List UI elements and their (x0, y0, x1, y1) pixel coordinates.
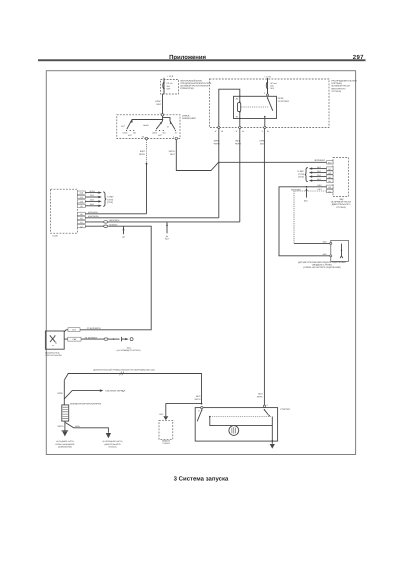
svg-text:БЕЛ: БЕЛ (157, 103, 162, 106)
svg-text:А11: А11 (80, 196, 83, 199)
fuse F2 40A (266, 79, 276, 94)
splice stub node A (122, 226, 124, 238)
wire relay pin КРАС/ЧЕРН down to C220 row (214, 129, 220, 218)
svg-text:(В ЛЕВОЙ ЧАСТИ: (В ЛЕВОЙ ЧАСТИ (332, 85, 351, 88)
svg-text:БЕЛ: БЕЛ (196, 395, 201, 398)
svg-text:ВЫКЛ: ВЫКЛ (143, 124, 149, 127)
ignition switch internals (121, 116, 178, 137)
svg-text:ЖЕЛ: ЖЕЛ (140, 150, 145, 153)
wire battery to engine ground (65, 422, 109, 433)
svg-text:СУПЗ: СУПЗ (298, 173, 304, 176)
svg-text:БЕЛ: БЕЛ (160, 413, 165, 416)
stop switch pin id box on top wire (68, 327, 101, 332)
ground G2 label (103, 440, 123, 448)
svg-text:С: С (267, 404, 269, 407)
svg-text:(СЛЕВА НА КАРТЕРЕ СЦЕПЛЕНИЯ): (СЛЕВА НА КАРТЕРЕ СЦЕПЛЕНИЯ) (303, 266, 340, 269)
svg-text:(ЗАЗЕМЛЕНИЕ): (ЗАЗЕМЛЕНИЕ) (58, 445, 72, 448)
svg-text:ЧЕРН: ЧЕРН (169, 150, 175, 153)
svg-text:В10: В10 (328, 162, 331, 165)
svg-text:ЖЕЛ/ЧЕРН: ЖЕЛ/ЧЕРН (88, 211, 99, 214)
svg-text:БЕЛ: БЕЛ (170, 153, 175, 156)
svg-text:В6: В6 (329, 172, 331, 175)
svg-text:ЗЕЛ: ЗЕЛ (270, 87, 274, 90)
ground G1 label (56, 440, 76, 448)
svg-text:ПРЕДОХРАНИТЕЛЕЙ И РЕЛЕ: ПРЕДОХРАНИТЕЛЕЙ И РЕЛЕ (181, 82, 212, 85)
svg-text:(В ПРАВОЙ ЧАСТИ: (В ПРАВОЙ ЧАСТИ (331, 201, 351, 204)
svg-text:А12: А12 (80, 192, 83, 195)
svg-text:ДАТЧИК ПОЛОЖЕНИЯ ПЕДАЛИ СЦЕПЛЕ: ДАТЧИК ПОЛОЖЕНИЯ ПЕДАЛИ СЦЕПЛЕНИЯ (298, 261, 346, 264)
svg-text:ОТСЕКА): ОТСЕКА) (332, 90, 342, 93)
svg-text:ЗАЖИГАНИЯ: ЗАЖИГАНИЯ (182, 117, 196, 120)
connector C220 pin boxes (77, 191, 85, 228)
header rule (38, 59, 366, 61)
MT models dashed box (159, 420, 173, 439)
ECU arrow wires to SUPZ unit (309, 166, 327, 182)
svg-text:(В ПЕРЕДНЕЙ ЧАСТИ: (В ПЕРЕДНЕЙ ЧАСТИ (103, 440, 123, 443)
svg-text:ЭБУ: ЭБУ (339, 198, 344, 201)
svg-text:2Б ЗЕЛ/БЕЛ: 2Б ЗЕЛ/БЕЛ (85, 337, 98, 340)
svg-text:(В ЛЕВОЙ ЧАСТИ ПАНЕЛИ: (В ЛЕВОЙ ЧАСТИ ПАНЕЛИ (181, 85, 209, 88)
relay K1 body (234, 96, 277, 118)
svg-text:К ЭБУ: К ЭБУ (298, 170, 305, 173)
charging system branch arrow (64, 389, 125, 398)
svg-text:АСС: АСС (128, 134, 133, 137)
svg-text:КРАС: КРАС (260, 140, 266, 143)
svg-text:(МОДЕЛИ С РКПП): (МОДЕЛИ С РКПП) (312, 264, 332, 267)
svg-text:КРАС: КРАС (214, 140, 220, 143)
svg-text:В: В (198, 409, 200, 412)
svg-text:3: 3 (264, 92, 265, 95)
svg-text:СТ: СТ (167, 125, 170, 128)
svg-text:КРАС: КРАС (155, 100, 161, 103)
starter ground node (271, 440, 273, 442)
svg-text:1Г: 1Г (236, 130, 238, 133)
svg-text:ON: ON (163, 132, 166, 135)
svg-text:2Г БЕЛ/ЧЕРН: 2Г БЕЛ/ЧЕРН (87, 327, 101, 330)
svg-text:МОТОРНОГО: МОТОРНОГО (332, 87, 346, 90)
starter plunger link (dashed) (210, 416, 271, 418)
stop switch label (45, 351, 62, 357)
svg-text:МОНТАЖНЫЙ БЛОК: МОНТАЖНЫЙ БЛОК (181, 79, 203, 82)
fuse F1 30A (163, 80, 173, 95)
svg-text:БЕЛ: БЕЛ (258, 393, 263, 396)
wire C220 A4 to relay coil ЖЕЛ/ЧЕРН (85, 219, 240, 223)
svg-text:ЖЕЛ: ЖЕЛ (235, 140, 240, 143)
MT models box label (162, 440, 171, 446)
relay box dashed enclosure (распределительная коробка) (210, 79, 330, 128)
battery feed wire to starter (57, 372, 201, 405)
svg-text:С220: С220 (53, 235, 59, 238)
diagram frame (46, 71, 355, 455)
svg-text:19: 19 (221, 130, 223, 133)
battery G1 (62, 402, 102, 421)
clutch sensor internal switch (340, 244, 343, 259)
svg-text:ДОПОЛНИТЕЛЬНЫЙ ПРОВОД (ТОЛЬКО: ДОПОЛНИТЕЛЬНЫЙ ПРОВОД (ТОЛЬКО ПРИ ОБОРУД… (93, 368, 155, 371)
relay enclosure bottom pins (215, 126, 270, 133)
svg-text:СИСТЕМА ЗАРЯДА: СИСТЕМА ЗАРЯДА (105, 390, 126, 393)
clutch pedal position sensor box (331, 240, 349, 261)
svg-text:ON: ON (133, 132, 136, 135)
svg-text:(НА ПРОВОДЕ СТАРТЕРА): (НА ПРОВОДЕ СТАРТЕРА) (117, 349, 141, 352)
svg-text:+ 12 В: + 12 В (167, 75, 174, 78)
clutch sensor pins (330, 242, 332, 256)
starter M1 box (195, 408, 277, 442)
svg-text:Е1: Е1 (267, 130, 269, 133)
svg-text:АККУМУЛЯТОРНАЯ БАТАРЕЯ: АККУМУЛЯТОРНАЯ БАТАРЕЯ (70, 402, 102, 405)
wire relay pin ЖЕЛ/ЧЕРН down to C220 row (235, 129, 241, 222)
svg-text:ЧЕРН: ЧЕРН (89, 190, 95, 193)
wire ECU B1 БЕЛ dashed to clutch sensor (294, 188, 330, 243)
svg-text:РЕЛЕ: РЕЛЕ (278, 97, 284, 100)
wire ECU B3 БЕЛ to clutch sensor (solid) (279, 184, 330, 256)
svg-text:LOCK: LOCK (152, 132, 158, 135)
wire fuse to ignition switch, КРАС/БЕЛ (155, 90, 164, 114)
wire ignition ST output ЧЕРН/БЕЛ to ECU (169, 140, 327, 171)
svg-text:86: 86 (236, 98, 238, 101)
svg-text:НА ЗАДНЕЙ ЧАСТИ: НА ЗАДНЕЙ ЧАСТИ (56, 440, 74, 443)
starter motor M (229, 426, 239, 436)
svg-text:А8: А8 (80, 213, 82, 216)
svg-text:2: 2 (262, 130, 263, 133)
svg-text:БЕЛ: БЕЛ (260, 143, 265, 146)
svg-text:ВЫКЛЮЧАТЕЛЬ: ВЫКЛЮЧАТЕЛЬ (45, 351, 60, 354)
svg-text:ЧЕРН: ЧЕРН (214, 143, 220, 146)
svg-text:(СУЗ): (СУЗ) (298, 176, 304, 179)
svg-text:ЧЕРН/БЕЛ: ЧЕРН/БЕЛ (314, 159, 325, 162)
svg-text:ЧЕРН: ЧЕРН (194, 398, 200, 401)
ECU label (331, 198, 351, 209)
starter pin 2 (from relay) (263, 404, 268, 407)
starter solenoid contact 1 (197, 409, 210, 421)
svg-text:БЕЛ: БЕЛ (165, 238, 170, 241)
starter pin 1 (from battery) (198, 407, 203, 413)
svg-text:Д2: Д2 (122, 236, 124, 239)
stop switch lower output wire (64, 337, 141, 353)
wire ignition ACC output ЖЕЛ/ЧЕРН (dashed then solid) (139, 140, 148, 214)
wire fuse to relay switch pin (267, 89, 269, 94)
ignition switch top pin (161, 114, 163, 116)
svg-text:30А: 30А (167, 85, 171, 88)
svg-text:В4: В4 (329, 180, 331, 183)
ground G2 (engine) (106, 433, 111, 438)
svg-text:БЕЛ: БЕЛ (304, 199, 309, 202)
svg-text:АСС: АСС (121, 125, 126, 128)
svg-text:КОРОБКА: КОРОБКА (332, 82, 343, 85)
svg-text:СУПЗ: СУПЗ (107, 198, 113, 201)
relay K1 label (278, 97, 290, 103)
svg-text:(СУЗ): (СУЗ) (107, 201, 113, 204)
stop lamp switch S2 box (45, 331, 64, 349)
svg-text:КРАС/ЧЕРН: КРАС/ЧЕРН (88, 215, 99, 218)
bracket and label К БЛОКУ СУПЗ (103, 192, 114, 207)
svg-text:ОТСЕКА): ОТСЕКА) (336, 206, 346, 209)
ignition switch S1 dashed box (117, 115, 180, 139)
splice node on B3 wire (304, 186, 309, 202)
wire battery negative (57, 421, 64, 431)
relay input pin node (264, 92, 268, 96)
svg-text:14: 14 (242, 130, 244, 133)
ECU U1 dashed box (333, 158, 349, 197)
svg-text:ПР А/4: ПР А/4 (167, 82, 173, 85)
svg-text:1Г: 1Г (215, 130, 217, 133)
svg-text:РАСПРЕДЕЛИТЕЛЬНАЯ: РАСПРЕДЕЛИТЕЛЬНАЯ (332, 80, 357, 83)
svg-text:В7: В7 (329, 168, 331, 171)
stop lamp switch S2 internals (50, 335, 57, 346)
relay K1 coil (236, 96, 241, 120)
ground G3 (starter) (270, 441, 275, 449)
wire relay contact КРАС/БЕЛ long down to starter (257, 129, 266, 406)
svg-text:БЛОКА ЦИЛИНДРОВ: БЛОКА ЦИЛИНДРОВ (56, 443, 76, 446)
ignition switch bottom pin ST (175, 137, 177, 139)
svg-text:СТАРТЕРА: СТАРТЕРА (278, 100, 290, 103)
fuse block label text (181, 79, 212, 90)
svg-text:ЗАД: ЗАД (127, 346, 131, 349)
wire relay coil 86 loop to pin (219, 89, 240, 127)
svg-text:В1: В1 (329, 190, 331, 193)
clutch sensor label (298, 261, 346, 269)
svg-text:ДВИГАТЕЛЬНОГО: ДВИГАТЕЛЬНОГО (332, 203, 351, 206)
svg-text:К ЭБУ: К ЭБУ (107, 196, 114, 199)
starter solenoid contact 2 (264, 409, 270, 416)
svg-text:ЗАМОК: ЗАМОК (182, 114, 190, 117)
node +12V supply (left fuse) (164, 75, 174, 81)
svg-text:2: 2 (173, 136, 174, 139)
svg-text:ЧЕРН: ЧЕРН (75, 425, 81, 428)
svg-text:В5: В5 (329, 176, 331, 179)
ground G1 (battery) (62, 431, 69, 437)
svg-text:СТОП-СИГНАЛОВ: СТОП-СИГНАЛОВ (45, 354, 62, 357)
svg-text:ST: ST (175, 132, 178, 135)
svg-text:ОТСЕКА): ОТСЕКА) (108, 445, 117, 448)
splice stub node B (165, 222, 170, 241)
wire relay coil 85 down (239, 119, 241, 127)
svg-text:ЧЕРН: ЧЕРН (139, 153, 145, 156)
svg-text:А2: А2 (80, 225, 82, 228)
svg-text:ЧЕРН: ЧЕРН (57, 425, 63, 428)
svg-text:85: 85 (236, 115, 238, 118)
wire C220 A2 to stop switch (64, 223, 151, 332)
fuse block dashed box (монтажный блок) (161, 80, 179, 95)
svg-text:1: 1 (159, 112, 160, 115)
svg-text:ЧЕРН: ЧЕРН (235, 143, 241, 146)
starter motor wiring (210, 417, 272, 442)
svg-text:ЖЕЛ/ЧЕРН: ЖЕЛ/ЧЕРН (109, 219, 120, 222)
svg-text:Д4: Д4 (166, 235, 168, 238)
svg-text:А9: А9 (80, 205, 82, 208)
svg-text:+ 12 В: + 12 В (264, 75, 271, 78)
svg-text:НБ: НБ (142, 136, 145, 139)
svg-text:А5: А5 (80, 217, 82, 220)
svg-text:А10: А10 (80, 201, 83, 204)
connector C220 arrow wires (85, 190, 102, 207)
connector C220 dashed box (51, 189, 78, 233)
bracket and label К ЭБУ СУПЗ (298, 168, 308, 182)
relay box enclosure label (332, 80, 357, 93)
wire branch to MT models box (160, 395, 203, 420)
svg-text:3 Система запуска: 3 Система запуска (174, 476, 229, 483)
svg-text:ЗЕЛ/БЕЛ: ЗЕЛ/БЕЛ (109, 223, 118, 226)
svg-text:КРАС: КРАС (57, 392, 63, 395)
wire C220 A5 to relay coil КРАС/ЧЕРН (85, 215, 219, 218)
svg-text:СВ6: СВ6 (73, 338, 77, 341)
svg-text:С МКПП: С МКПП (162, 442, 170, 445)
svg-text:СЕ5: СЕ5 (72, 329, 76, 332)
wire relay contact output down (264, 119, 266, 127)
svg-text:ДВИГАТЕЛЬНОГО: ДВИГАТЕЛЬНОГО (104, 443, 121, 446)
wire C220 A8 to ignition ACC wire (85, 211, 146, 214)
svg-text:СТАРТЕР: СТАРТЕР (280, 408, 290, 411)
svg-text:КРАС: КРАС (257, 396, 263, 399)
svg-text:ПРИБОРОВ): ПРИБОРОВ) (181, 87, 194, 90)
svg-text:МОДЕЛИ: МОДЕЛИ (162, 440, 171, 443)
ignition switch label (182, 114, 196, 120)
ECU pin boxes (327, 161, 334, 194)
svg-text:В3: В3 (329, 186, 331, 189)
node +12V supply (relay feed) (264, 75, 271, 81)
ignition switch bottom pin ACC (145, 137, 147, 139)
svg-text:А4: А4 (80, 221, 82, 224)
relay K1 contact (241, 97, 272, 118)
svg-text:КОР: КОР (167, 87, 172, 90)
